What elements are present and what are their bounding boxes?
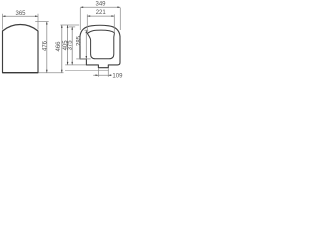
dim 109 extension right — [107, 68, 109, 77]
dim 285 bottom extension — [76, 58, 91, 60]
dim 349 line — [80, 6, 120, 8]
dim 476 arrow top — [46, 22, 48, 25]
svg-text:375: 375 — [68, 40, 74, 51]
svg-text:349: 349 — [95, 2, 106, 8]
dim 285 arrow top — [86, 30, 88, 33]
dim 349 arrow right — [117, 6, 120, 8]
dim 109 extension left — [97, 68, 99, 77]
dim 476 line — [46, 22, 48, 73]
svg-text:365: 365 — [15, 11, 26, 17]
lid front view outline — [3, 25, 39, 73]
dim 375 arrow top — [71, 27, 73, 30]
dim 349 extension left — [79, 8, 81, 30]
dim 466 arrow bottom — [61, 70, 63, 73]
dim 365 arrow right — [35, 15, 38, 17]
dim 466 arrow top — [61, 25, 63, 28]
svg-text:476: 476 — [43, 40, 49, 51]
svg-text:285: 285 — [76, 35, 82, 46]
dim 405 arrow bottom — [67, 62, 69, 65]
dim 349 extension right — [119, 8, 121, 30]
dim 221 extension left — [86, 14, 88, 33]
dim 285 arrow bottom — [86, 56, 88, 59]
dim 365 arrow left — [3, 15, 6, 17]
dim 285 top extension — [84, 29, 88, 31]
svg-text:466: 466 — [56, 41, 62, 52]
dim 365 extension left — [2, 14, 4, 30]
dim 285 line — [85, 30, 87, 59]
dim 476 bottom extension — [39, 72, 64, 74]
dim 476 top extension — [35, 21, 49, 23]
svg-text:221: 221 — [96, 10, 107, 16]
dim 466 line — [61, 25, 63, 73]
seat top view inner cutout — [87, 30, 114, 59]
dim 221 extension right — [113, 14, 115, 32]
dim 221 arrow left — [87, 15, 90, 17]
dim 375 arrow bottom — [71, 62, 73, 65]
hinge faint line — [65, 70, 109, 72]
dim 109 arrow left — [96, 74, 99, 76]
dim 375 top extension — [69, 26, 75, 28]
dim 109 line — [93, 74, 111, 76]
dim 221 arrow right — [111, 15, 114, 17]
lid front view bottom edge — [2, 72, 38, 74]
dim 365 line — [3, 15, 39, 17]
dim 221 line — [87, 15, 114, 17]
dim 405/375 bottom extension — [65, 64, 86, 66]
seat top view outer outline — [80, 25, 120, 67]
dim 349 arrow left — [80, 6, 83, 8]
dim 365 extension right — [37, 14, 39, 30]
dim 375 line — [71, 27, 73, 65]
dim 476 arrow bottom — [46, 70, 48, 73]
dim 405 line — [67, 25, 69, 65]
dim 405 arrow top — [67, 25, 69, 28]
dim 466/405 top extension — [60, 24, 79, 26]
svg-text:109: 109 — [112, 74, 123, 80]
dim 109 arrow right — [108, 74, 111, 76]
